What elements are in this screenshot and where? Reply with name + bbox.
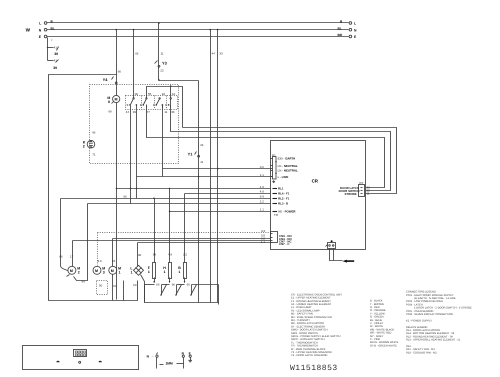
wire row 0.8 M1 xyxy=(113,238,271,240)
screw right xyxy=(99,361,102,363)
svg-text:1: 1 xyxy=(178,270,180,274)
switch SM1 xyxy=(127,92,139,109)
svg-text:HE - POWER: HE - POWER xyxy=(278,210,296,214)
pin HE power xyxy=(273,211,278,213)
wire row 2.2 to M2 bottom xyxy=(88,203,271,205)
svg-text:50: 50 xyxy=(99,284,103,288)
wire Y3 junction to feed xyxy=(158,79,160,81)
svg-text:4.8: 4.8 xyxy=(260,189,264,193)
svg-text:06: 06 xyxy=(135,92,139,96)
svg-text:Y1: Y1 xyxy=(188,151,194,156)
wire N drop 44 xyxy=(210,30,212,303)
wire to N terminal xyxy=(177,363,184,365)
svg-text:L: L xyxy=(39,22,41,26)
svg-text:33: 33 xyxy=(171,110,175,114)
svg-text:Y4 - DOOR LATCH SOLENOID: Y4 - DOOR LATCH SOLENOID xyxy=(291,354,328,357)
svg-text:22: 22 xyxy=(162,92,166,96)
svg-text:99: 99 xyxy=(133,110,137,114)
switch SM4 xyxy=(165,92,175,108)
svg-text:1: 1 xyxy=(131,270,133,274)
svg-text:33: 33 xyxy=(219,52,223,56)
ground below E xyxy=(190,358,192,361)
svg-text:P008 - SEVEN DISPLAY CONNECTIO: P008 - SEVEN DISPLAY CONNECTION xyxy=(406,313,453,316)
wire CR earth to chassis xyxy=(330,249,343,261)
wire sw1a down xyxy=(130,106,132,204)
wire H1 bottom arrow xyxy=(169,278,171,283)
svg-text:2: 2 xyxy=(83,144,85,148)
connector CR bottom earth xyxy=(328,243,336,249)
wire switch feed line xyxy=(147,87,183,128)
wire row 9.9 to M2 xyxy=(61,198,271,200)
svg-text:39: 39 xyxy=(53,66,57,70)
svg-text:10: 10 xyxy=(172,92,176,96)
ground chassis 2 xyxy=(48,60,54,62)
svg-text:17: 17 xyxy=(70,255,74,259)
svg-text:1: 1 xyxy=(119,270,121,274)
svg-text:L: L xyxy=(354,22,356,26)
svg-text:3.3: 3.3 xyxy=(98,259,102,263)
svg-text:RL1: RL1 xyxy=(278,187,284,191)
svg-text:22: 22 xyxy=(200,143,204,147)
svg-text:E: E xyxy=(189,352,191,356)
svg-text:77: 77 xyxy=(147,110,151,114)
connector P001 block xyxy=(74,350,87,357)
svg-text:4.9: 4.9 xyxy=(168,252,172,256)
svg-text:K2 - POWER SUPPLY: K2 - POWER SUPPLY xyxy=(406,319,432,322)
svg-text:55: 55 xyxy=(148,92,152,96)
node L right terminal xyxy=(349,22,352,25)
svg-text:1.1: 1.1 xyxy=(260,208,264,212)
wire N drop 33 xyxy=(217,30,219,303)
wire M1 to bottom xyxy=(112,275,114,301)
node N terminal xyxy=(182,355,184,357)
dashed box latch unit xyxy=(90,85,179,164)
control unit CR box xyxy=(271,141,366,250)
wire L1 to bottom xyxy=(141,275,145,303)
svg-text:2: 2 xyxy=(78,270,80,274)
wire R1 bottom arrow xyxy=(184,278,186,283)
wire row 1.1 L1 xyxy=(138,242,271,244)
wire row 4.8 to R1 xyxy=(185,193,271,195)
wire E bus xyxy=(47,36,349,38)
svg-text:Y4: Y4 xyxy=(103,77,109,82)
svg-text:Y3: Y3 xyxy=(162,60,168,65)
svg-text:11: 11 xyxy=(367,192,370,196)
node L left terminal xyxy=(44,22,47,25)
wire strobe loop xyxy=(183,128,397,194)
svg-text:3: 3 xyxy=(103,270,105,274)
wire door switch xyxy=(156,358,158,369)
svg-text:CN7 - C: CN7 - C xyxy=(279,242,290,246)
wire F1 bottom arrow xyxy=(154,278,156,283)
svg-text:99: 99 xyxy=(153,252,157,256)
thermoswitch box TL xyxy=(145,285,219,303)
svg-text:CR: CR xyxy=(312,178,319,183)
svg-text:0.6: 0.6 xyxy=(260,165,264,169)
linkage dotted separators xyxy=(141,96,143,110)
svg-text:4.9: 4.9 xyxy=(260,185,264,189)
svg-text:1: 1 xyxy=(164,270,166,274)
node panel hole xyxy=(79,361,81,363)
svg-text:W11518853: W11518853 xyxy=(290,364,338,373)
svg-text:66: 66 xyxy=(118,69,122,73)
svg-text:22: 22 xyxy=(160,68,164,72)
wire sw1b down xyxy=(136,109,138,199)
svg-text:+: + xyxy=(51,38,53,42)
wire L to Y3 xyxy=(158,23,160,81)
enclosure divider xyxy=(123,281,125,301)
svg-text:1.1: 1.1 xyxy=(261,240,265,244)
svg-text:R18 - COOLING FAN - M2: R18 - COOLING FAN - M2 xyxy=(406,351,437,354)
ground bold chassis arrow xyxy=(342,260,347,263)
wire row line 1.1 xyxy=(137,176,271,178)
svg-text:66: 66 xyxy=(187,282,191,286)
svg-text:2.2: 2.2 xyxy=(183,252,187,256)
svg-text:66: 66 xyxy=(172,282,176,286)
wire row he power 1.1 xyxy=(170,211,271,213)
svg-text:M: M xyxy=(95,269,98,273)
screw left xyxy=(56,361,59,363)
svg-text:1: 1 xyxy=(148,270,150,274)
svg-text:RL3 - B: RL3 - B xyxy=(278,202,288,206)
motor M8 xyxy=(113,95,120,102)
heater R1 xyxy=(184,263,187,279)
svg-text:71: 71 xyxy=(92,152,96,156)
svg-text:TR: TR xyxy=(274,213,278,217)
svg-text:60: 60 xyxy=(113,284,117,288)
heater H1 xyxy=(169,263,172,279)
lamp L1 xyxy=(134,265,144,275)
svg-text:66: 66 xyxy=(59,255,63,259)
node N right terminal xyxy=(349,28,352,31)
heater F1 xyxy=(153,263,156,279)
switch SM3 xyxy=(153,92,165,108)
svg-text:L - LINE: L - LINE xyxy=(278,175,289,179)
svg-text:2MM: 2MM xyxy=(166,362,173,366)
wire Y3/Y1 drop xyxy=(198,81,200,303)
svg-text:8: 8 xyxy=(108,100,110,104)
svg-text:66: 66 xyxy=(156,282,160,286)
svg-text:06: 06 xyxy=(135,52,139,56)
svg-text:11: 11 xyxy=(200,160,203,164)
legend column 3 connectors xyxy=(406,291,472,355)
svg-text:M: M xyxy=(111,269,114,273)
wire sw4 down to door loop xyxy=(171,106,391,191)
svg-text:BR: BR xyxy=(338,33,343,37)
wire N bus xyxy=(47,29,349,31)
svg-text:GY-B - GREEN-WHITE: GY-B - GREEN-WHITE xyxy=(370,344,397,347)
svg-text:99: 99 xyxy=(108,110,112,114)
wire E drop xyxy=(47,38,49,61)
enclosure box left/top/bottom xyxy=(49,75,138,301)
switch SM2 xyxy=(140,92,152,108)
node E left terminal xyxy=(44,35,47,38)
connector CN low power xyxy=(271,232,278,243)
motor M2 cooling fan xyxy=(68,266,76,274)
node E right terminal xyxy=(349,35,352,38)
svg-text:39: 39 xyxy=(54,52,58,56)
node E terminal xyxy=(189,355,191,357)
control panel outline xyxy=(23,346,139,370)
wire sw2 down to latch loop xyxy=(147,106,385,188)
svg-text:RL4 - F1: RL4 - F1 xyxy=(278,192,290,196)
wire row neutral 0.6 xyxy=(163,168,271,170)
svg-text:11: 11 xyxy=(164,110,167,114)
svg-text:66: 66 xyxy=(124,195,128,199)
wire M3 dotted below xyxy=(97,281,108,295)
node N left terminal xyxy=(44,28,47,31)
motor M3 turnspit xyxy=(93,266,101,274)
wire row 3.3 dotted M3 xyxy=(98,232,271,234)
ground chassis 1 xyxy=(47,47,48,48)
motor M1 safety fan xyxy=(109,266,117,274)
svg-text:LN - NEUTRAL: LN - NEUTRAL xyxy=(278,168,298,172)
wire N to Y4/M8 xyxy=(116,30,118,96)
svg-text:E30 - EARTH: E30 - EARTH xyxy=(278,157,296,161)
svg-text:9.9: 9.9 xyxy=(260,195,264,199)
wire M8 down to bottom return xyxy=(116,103,118,300)
svg-text:~: ~ xyxy=(152,354,154,358)
svg-text:1.1: 1.1 xyxy=(260,173,264,177)
connector relay rows xyxy=(273,188,278,190)
wire F1 drop xyxy=(154,199,156,263)
svg-text:M: M xyxy=(115,98,118,102)
svg-text:M: M xyxy=(70,269,73,273)
svg-text:96: 96 xyxy=(92,131,96,135)
wire N to sw1 xyxy=(133,30,135,98)
wire row 0.5 M2 aux xyxy=(73,240,271,242)
dashed box switch block xyxy=(126,96,178,110)
svg-text:60: 60 xyxy=(133,283,137,287)
legend column 1 components xyxy=(291,293,342,357)
svg-text:RL3 - UPPER/GRILL HEATING ELEM: RL3 - UPPER/GRILL HEATING ELEMENT - 21 xyxy=(406,339,461,342)
svg-text:2.2: 2.2 xyxy=(260,200,264,204)
wire sw3 down xyxy=(162,106,164,177)
svg-text:99: 99 xyxy=(82,280,86,284)
svg-text:W: W xyxy=(26,27,31,32)
svg-text:11: 11 xyxy=(161,52,164,56)
legend column 2 colors xyxy=(370,300,399,348)
svg-text:44: 44 xyxy=(212,52,216,56)
svg-text:BL: BL xyxy=(51,26,55,30)
svg-text:RL2 - F1: RL2 - F1 xyxy=(278,197,290,201)
svg-text:04: 04 xyxy=(112,259,116,263)
wire row 4.9 to H1 xyxy=(117,188,271,190)
svg-text:BL: BL xyxy=(338,26,342,30)
svg-text:STROBE: STROBE xyxy=(345,192,357,196)
svg-text:44: 44 xyxy=(126,110,130,114)
relay K2 xyxy=(87,140,95,148)
svg-text:90: 90 xyxy=(138,253,142,257)
wire L bus xyxy=(47,22,349,24)
